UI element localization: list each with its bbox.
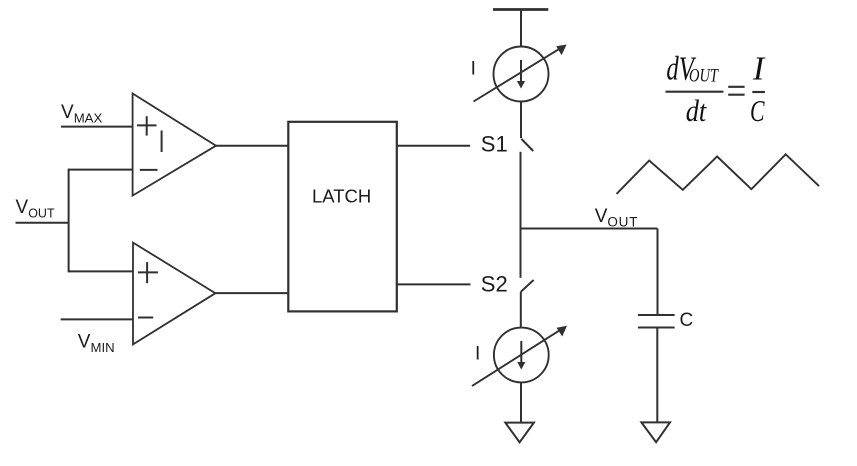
VOUT branch to U2 plus bbox=[69, 270, 133, 272]
current source I2 bbox=[494, 328, 549, 383]
comparator U2 bbox=[133, 243, 215, 345]
U1 stray bar bbox=[161, 131, 163, 153]
wire rail to current source I1 bbox=[520, 10, 522, 48]
wire node to capacitor bbox=[657, 229, 659, 316]
svg-text:I: I bbox=[752, 51, 766, 88]
switch S1 blade bbox=[522, 139, 534, 151]
svg-text:C: C bbox=[680, 310, 694, 331]
ground (right) bbox=[641, 422, 670, 442]
U2 minus input mark bbox=[138, 317, 153, 319]
current source I1 bbox=[494, 47, 549, 102]
wire VOUT stub bbox=[16, 222, 69, 224]
ground (left) bbox=[505, 423, 534, 443]
wire U1 output to LATCH bbox=[216, 145, 288, 147]
svg-text:VOUT: VOUT bbox=[16, 197, 55, 221]
triangle wave bbox=[617, 154, 820, 194]
svg-text:S2: S2 bbox=[481, 272, 508, 297]
VOUT branch to U1 minus bbox=[69, 169, 133, 171]
svg-text:VMAX: VMAX bbox=[61, 102, 102, 126]
wire I1 to switch S1 bbox=[520, 102, 522, 139]
wire I2 to ground bbox=[520, 382, 522, 422]
LATCH box bbox=[288, 122, 397, 312]
svg-text:LATCH: LATCH bbox=[312, 186, 371, 207]
U1 minus input mark bbox=[140, 169, 158, 171]
formula fraction bar right bbox=[752, 91, 765, 93]
wire VMIN to U2 minus bbox=[61, 318, 133, 320]
variable-source arrow I1 bbox=[474, 45, 567, 102]
svg-text:I: I bbox=[471, 59, 476, 80]
wire S2 to current source I2 bbox=[520, 292, 522, 328]
capacitor C bbox=[638, 315, 675, 328]
svg-text:VOUT: VOUT bbox=[595, 206, 639, 230]
svg-text:OUT: OUT bbox=[689, 66, 719, 87]
wire VMAX to U1 plus bbox=[61, 126, 133, 128]
power rail bbox=[493, 8, 548, 11]
svg-text:S1: S1 bbox=[481, 132, 508, 157]
wire LATCH to S1 bbox=[397, 145, 470, 147]
comparator U1 bbox=[133, 94, 216, 196]
svg-text:I: I bbox=[475, 344, 480, 365]
svg-text:dt: dt bbox=[686, 93, 708, 128]
switch S2 blade bbox=[521, 280, 534, 292]
wire U2 output to LATCH bbox=[215, 292, 288, 294]
wire S1 to VOUT node to S2 bbox=[520, 152, 522, 278]
svg-text:VMIN: VMIN bbox=[78, 332, 115, 356]
VOUT node wire bbox=[521, 228, 658, 230]
svg-text:C: C bbox=[750, 93, 765, 128]
formula dVout/dt = I/C bbox=[666, 51, 766, 128]
variable-source arrow I2 bbox=[472, 326, 567, 386]
wire capacitor to ground bbox=[656, 328, 658, 423]
wire LATCH to S2 bbox=[397, 283, 471, 285]
U1 plus input mark bbox=[137, 116, 157, 135]
U2 plus input mark bbox=[138, 262, 158, 283]
formula fraction bar left bbox=[666, 91, 724, 93]
formula equals sign bbox=[728, 87, 744, 95]
VOUT branch vertical bbox=[68, 169, 70, 273]
